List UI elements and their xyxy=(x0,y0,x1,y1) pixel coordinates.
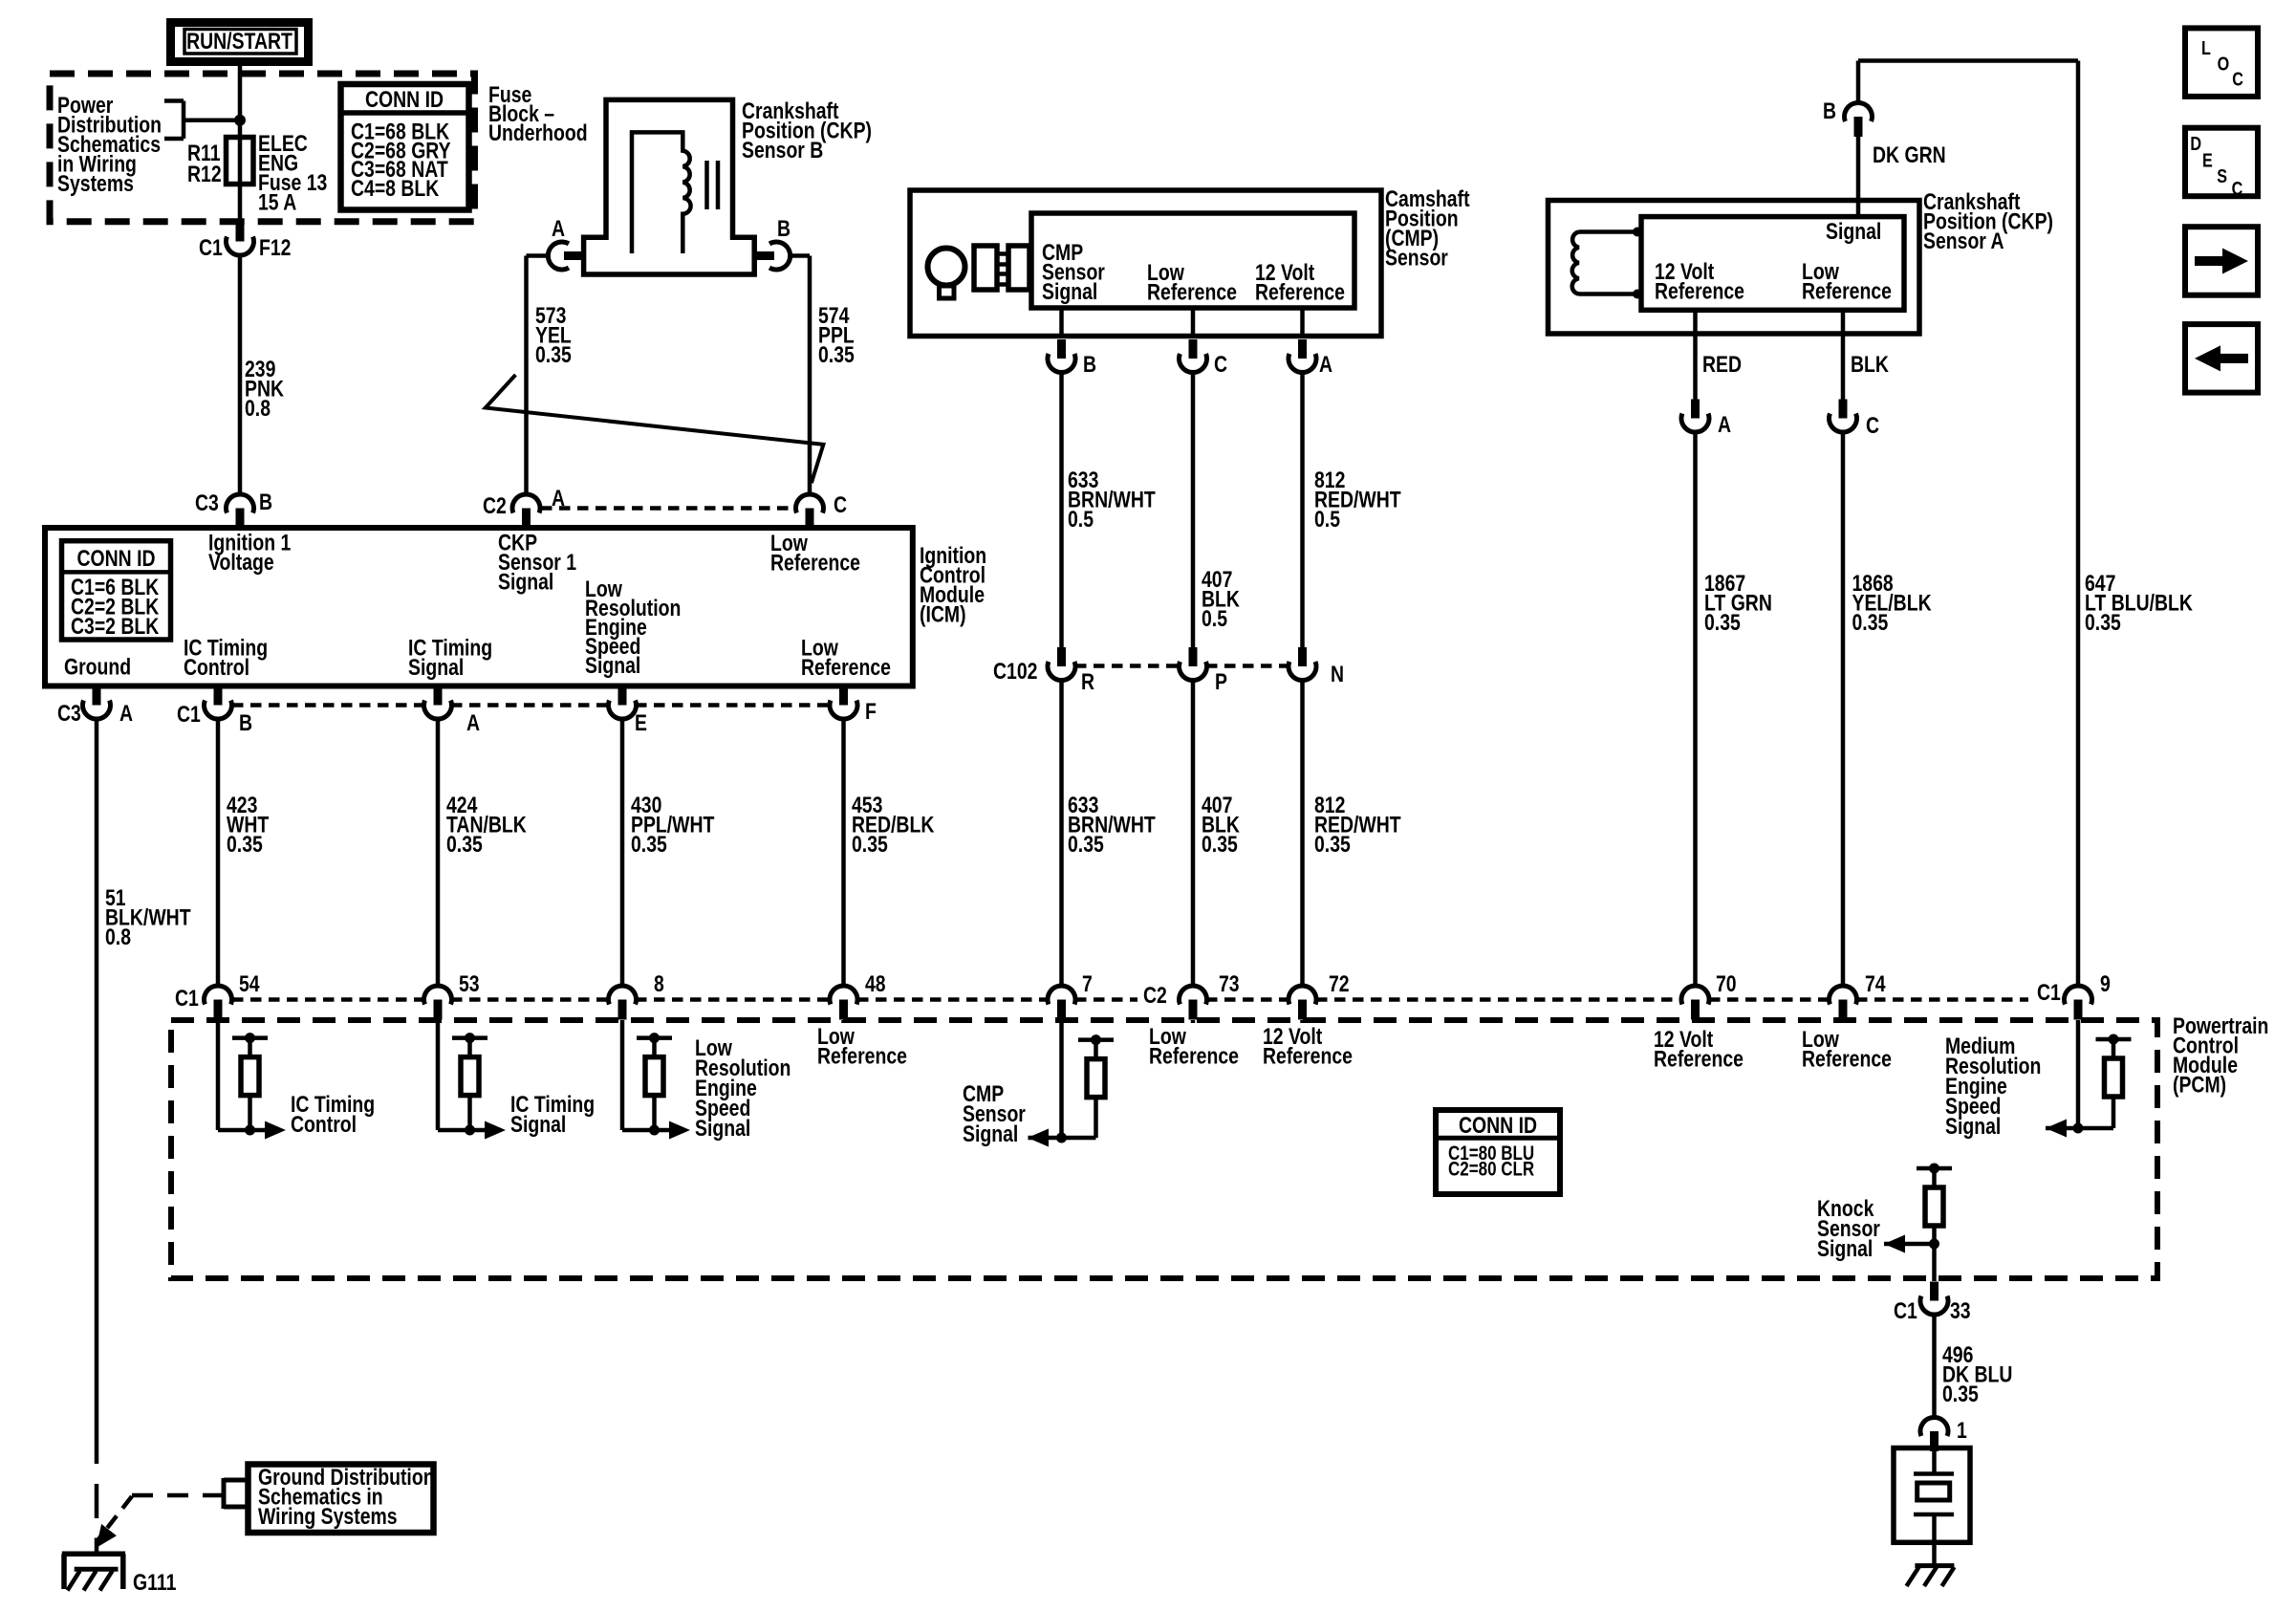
svg-text:B: B xyxy=(259,489,272,514)
svg-text:L: L xyxy=(2201,37,2211,58)
svg-text:E: E xyxy=(2202,150,2213,171)
svg-text:0.35: 0.35 xyxy=(1704,609,1741,635)
svg-text:CONN ID: CONN ID xyxy=(76,545,155,571)
svg-text:0.8: 0.8 xyxy=(105,924,131,949)
svg-text:0.35: 0.35 xyxy=(1942,1381,1979,1406)
svg-text:0.35: 0.35 xyxy=(227,831,263,857)
svg-text:Ground: Ground xyxy=(64,654,131,680)
svg-text:C: C xyxy=(1214,351,1227,377)
svg-text:B: B xyxy=(239,709,252,735)
svg-text:0.8: 0.8 xyxy=(245,395,271,421)
svg-text:A: A xyxy=(1319,351,1332,377)
svg-text:Systems: Systems xyxy=(57,170,134,196)
svg-text:F12: F12 xyxy=(259,234,291,260)
svg-text:A: A xyxy=(552,485,565,511)
svg-text:RUN/START: RUN/START xyxy=(186,28,292,54)
svg-text:C102: C102 xyxy=(993,658,1037,684)
svg-text:Sensor: Sensor xyxy=(1385,245,1448,271)
svg-text:74: 74 xyxy=(1865,970,1886,996)
svg-text:Voltage: Voltage xyxy=(208,549,274,575)
svg-text:Reference: Reference xyxy=(801,654,891,680)
svg-text:Wiring Systems: Wiring Systems xyxy=(258,1503,398,1529)
svg-text:C: C xyxy=(1866,412,1879,438)
svg-text:33: 33 xyxy=(1950,1297,1971,1323)
svg-text:Signal: Signal xyxy=(695,1115,750,1141)
svg-text:Signal: Signal xyxy=(1817,1235,1873,1261)
svg-text:C1: C1 xyxy=(175,985,199,1011)
svg-text:C2=80 CLR: C2=80 CLR xyxy=(1448,1159,1534,1181)
svg-text:0.35: 0.35 xyxy=(1314,831,1351,857)
svg-text:54: 54 xyxy=(239,970,260,996)
svg-text:A: A xyxy=(119,700,133,726)
svg-text:0.35: 0.35 xyxy=(818,341,855,367)
svg-text:Signal: Signal xyxy=(1826,218,1881,244)
svg-text:Reference: Reference xyxy=(1654,1046,1744,1072)
svg-text:(ICM): (ICM) xyxy=(920,601,966,627)
svg-text:Signal: Signal xyxy=(498,569,553,595)
svg-text:9: 9 xyxy=(2100,970,2111,996)
svg-text:72: 72 xyxy=(1329,970,1350,996)
svg-text:N: N xyxy=(1331,661,1344,686)
svg-text:S: S xyxy=(2217,165,2227,186)
svg-text:C3: C3 xyxy=(195,490,219,515)
svg-text:B: B xyxy=(1083,351,1096,377)
svg-text:R: R xyxy=(1081,668,1094,694)
svg-text:Underhood: Underhood xyxy=(488,120,588,145)
svg-text:7: 7 xyxy=(1082,970,1093,996)
svg-text:P: P xyxy=(1215,668,1227,694)
svg-text:CONN ID: CONN ID xyxy=(1459,1112,1537,1138)
svg-text:C: C xyxy=(2232,69,2243,90)
svg-text:Reference: Reference xyxy=(817,1043,907,1069)
svg-text:Reference: Reference xyxy=(1263,1043,1353,1069)
svg-text:F: F xyxy=(865,698,877,724)
svg-text:G111: G111 xyxy=(133,1569,176,1595)
svg-text:73: 73 xyxy=(1219,970,1240,996)
svg-text:Sensor A: Sensor A xyxy=(1923,228,2004,253)
svg-text:0.35: 0.35 xyxy=(2085,609,2121,635)
svg-text:53: 53 xyxy=(459,970,480,996)
svg-text:Reference: Reference xyxy=(1147,279,1237,305)
svg-text:C1: C1 xyxy=(2037,979,2061,1005)
svg-text:0.35: 0.35 xyxy=(535,341,572,367)
svg-text:Reference: Reference xyxy=(1802,278,1892,304)
svg-text:Reference: Reference xyxy=(1802,1046,1892,1072)
svg-text:0.35: 0.35 xyxy=(1852,609,1889,635)
svg-text:C: C xyxy=(2232,178,2243,199)
svg-text:C: C xyxy=(834,491,847,517)
svg-text:C3: C3 xyxy=(57,700,81,726)
svg-text:Control: Control xyxy=(291,1111,357,1137)
svg-text:C3=2 BLK: C3=2 BLK xyxy=(71,613,160,639)
svg-text:8: 8 xyxy=(654,970,664,996)
svg-text:C1: C1 xyxy=(177,701,201,727)
svg-text:(PCM): (PCM) xyxy=(2173,1072,2226,1098)
svg-text:0.5: 0.5 xyxy=(1202,605,1227,631)
svg-text:B: B xyxy=(1823,98,1836,123)
svg-text:Reference: Reference xyxy=(1149,1043,1239,1069)
svg-text:Reference: Reference xyxy=(770,550,860,576)
svg-text:0.5: 0.5 xyxy=(1314,506,1340,532)
svg-text:C2: C2 xyxy=(483,492,507,518)
svg-text:0.35: 0.35 xyxy=(1068,831,1104,857)
svg-text:15 A: 15 A xyxy=(258,189,297,215)
svg-text:Signal: Signal xyxy=(585,652,640,678)
svg-text:BLK: BLK xyxy=(1851,351,1889,377)
svg-text:R12: R12 xyxy=(187,161,222,186)
svg-text:O: O xyxy=(2218,54,2230,75)
svg-text:C1: C1 xyxy=(1894,1297,1917,1323)
svg-text:0.35: 0.35 xyxy=(1202,831,1238,857)
svg-text:0.35: 0.35 xyxy=(631,831,667,857)
svg-text:48: 48 xyxy=(865,970,886,996)
svg-text:Sensor B: Sensor B xyxy=(742,137,823,163)
svg-text:Signal: Signal xyxy=(1042,278,1097,304)
svg-text:RED: RED xyxy=(1702,351,1742,377)
svg-text:C4=8 BLK: C4=8 BLK xyxy=(351,175,440,201)
svg-text:Control: Control xyxy=(184,654,249,680)
svg-text:A: A xyxy=(466,709,480,735)
svg-text:D: D xyxy=(2190,133,2201,154)
svg-text:Reference: Reference xyxy=(1655,278,1744,304)
svg-text:DK GRN: DK GRN xyxy=(1873,142,1946,167)
svg-text:0.35: 0.35 xyxy=(852,831,888,857)
svg-text:E: E xyxy=(635,709,647,735)
svg-text:A: A xyxy=(1718,411,1731,437)
svg-text:Signal: Signal xyxy=(1945,1113,2001,1139)
svg-text:CONN ID: CONN ID xyxy=(365,86,444,112)
svg-text:1: 1 xyxy=(1957,1417,1967,1443)
svg-text:Reference: Reference xyxy=(1255,279,1345,305)
svg-text:B: B xyxy=(777,215,791,241)
svg-text:A: A xyxy=(552,215,565,241)
svg-text:Signal: Signal xyxy=(510,1111,566,1137)
svg-text:0.35: 0.35 xyxy=(446,831,483,857)
svg-text:Signal: Signal xyxy=(408,654,464,680)
svg-text:C2: C2 xyxy=(1143,982,1167,1008)
svg-text:0.5: 0.5 xyxy=(1068,506,1094,532)
svg-text:70: 70 xyxy=(1716,970,1737,996)
svg-text:Signal: Signal xyxy=(963,1121,1018,1146)
svg-text:C1: C1 xyxy=(199,234,223,260)
